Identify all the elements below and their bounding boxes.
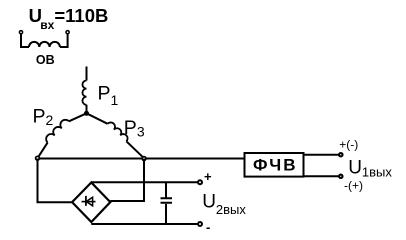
inductor P3 xyxy=(108,122,128,141)
wire main horizontal to FCHV xyxy=(38,158,245,160)
winding OB (excitation winding) xyxy=(21,34,68,47)
node left junction xyxy=(36,156,40,160)
diode symbol inside bridge xyxy=(82,196,96,206)
box FCHV phase-sensitive rectifier xyxy=(245,153,304,177)
rectifier bridge diamond xyxy=(72,183,110,223)
wire right node down to diamond right vertex xyxy=(110,159,144,202)
node right junction xyxy=(142,157,146,161)
terminal plus U2 xyxy=(198,180,202,184)
node star center xyxy=(84,111,89,116)
wire P3 to right node xyxy=(126,141,144,158)
wire FCHV to bottom output terminal xyxy=(304,175,339,177)
terminal OB right xyxy=(66,31,69,34)
svg-text:+: + xyxy=(204,169,212,184)
svg-text:-: - xyxy=(206,220,210,235)
wire left node down to diamond left vertex xyxy=(38,159,73,203)
wire node to P3 xyxy=(87,113,108,124)
svg-text:ФЧВ: ФЧВ xyxy=(253,155,298,174)
terminal U1 top xyxy=(339,153,342,156)
inductor P1 xyxy=(82,81,86,105)
wire node to P2 xyxy=(69,113,87,121)
wire P1 top lead xyxy=(86,67,88,81)
terminal U1 bottom xyxy=(339,175,342,178)
svg-text:-(+): -(+) xyxy=(344,178,363,192)
capacitor C bottom lead xyxy=(165,204,167,224)
inductor P2 xyxy=(46,120,69,143)
wire minus output from diamond bottom xyxy=(91,223,197,225)
wire FCHV to top output terminal xyxy=(304,154,339,156)
terminal minus U2 xyxy=(198,222,202,226)
capacitor C plates xyxy=(161,198,173,203)
wire P2 to left node xyxy=(38,143,48,159)
svg-text:ОВ: ОВ xyxy=(36,53,55,67)
svg-text:+(-): +(-) xyxy=(339,137,358,151)
wire P1 bottom lead xyxy=(86,105,88,113)
terminal OB left xyxy=(19,31,22,34)
wire plus output from diamond top xyxy=(91,181,197,183)
capacitor C top lead xyxy=(165,182,167,197)
